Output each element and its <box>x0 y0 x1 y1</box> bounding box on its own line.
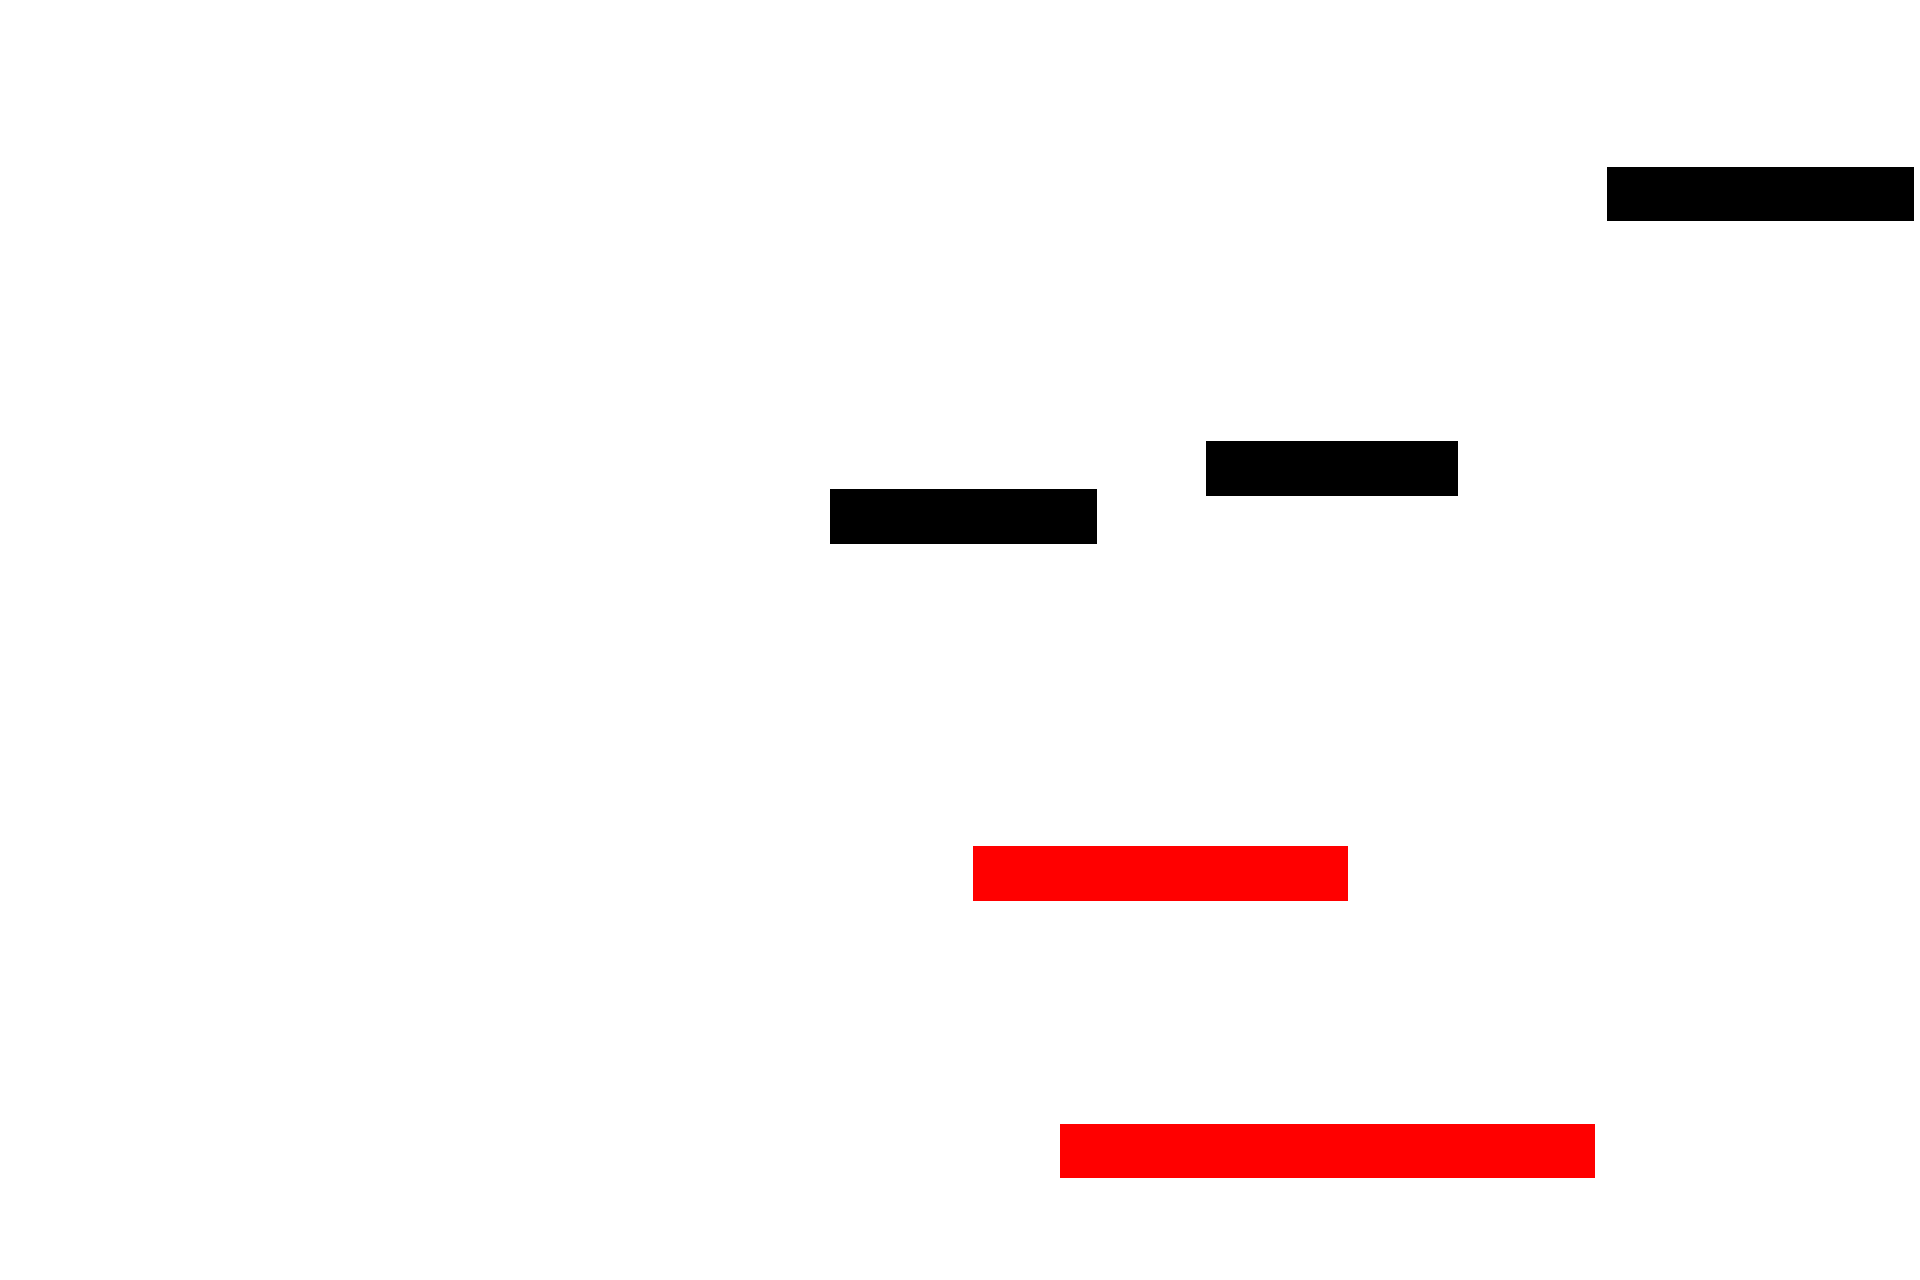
black redaction bar 1 (top right) <box>1607 167 1914 221</box>
black redaction bar 3 (center left) <box>830 489 1097 544</box>
red bar 2 (bottom) <box>1060 1124 1595 1178</box>
black redaction bar 2 (upper middle) <box>1206 441 1458 496</box>
red bar 1 (lower middle) <box>973 846 1348 901</box>
